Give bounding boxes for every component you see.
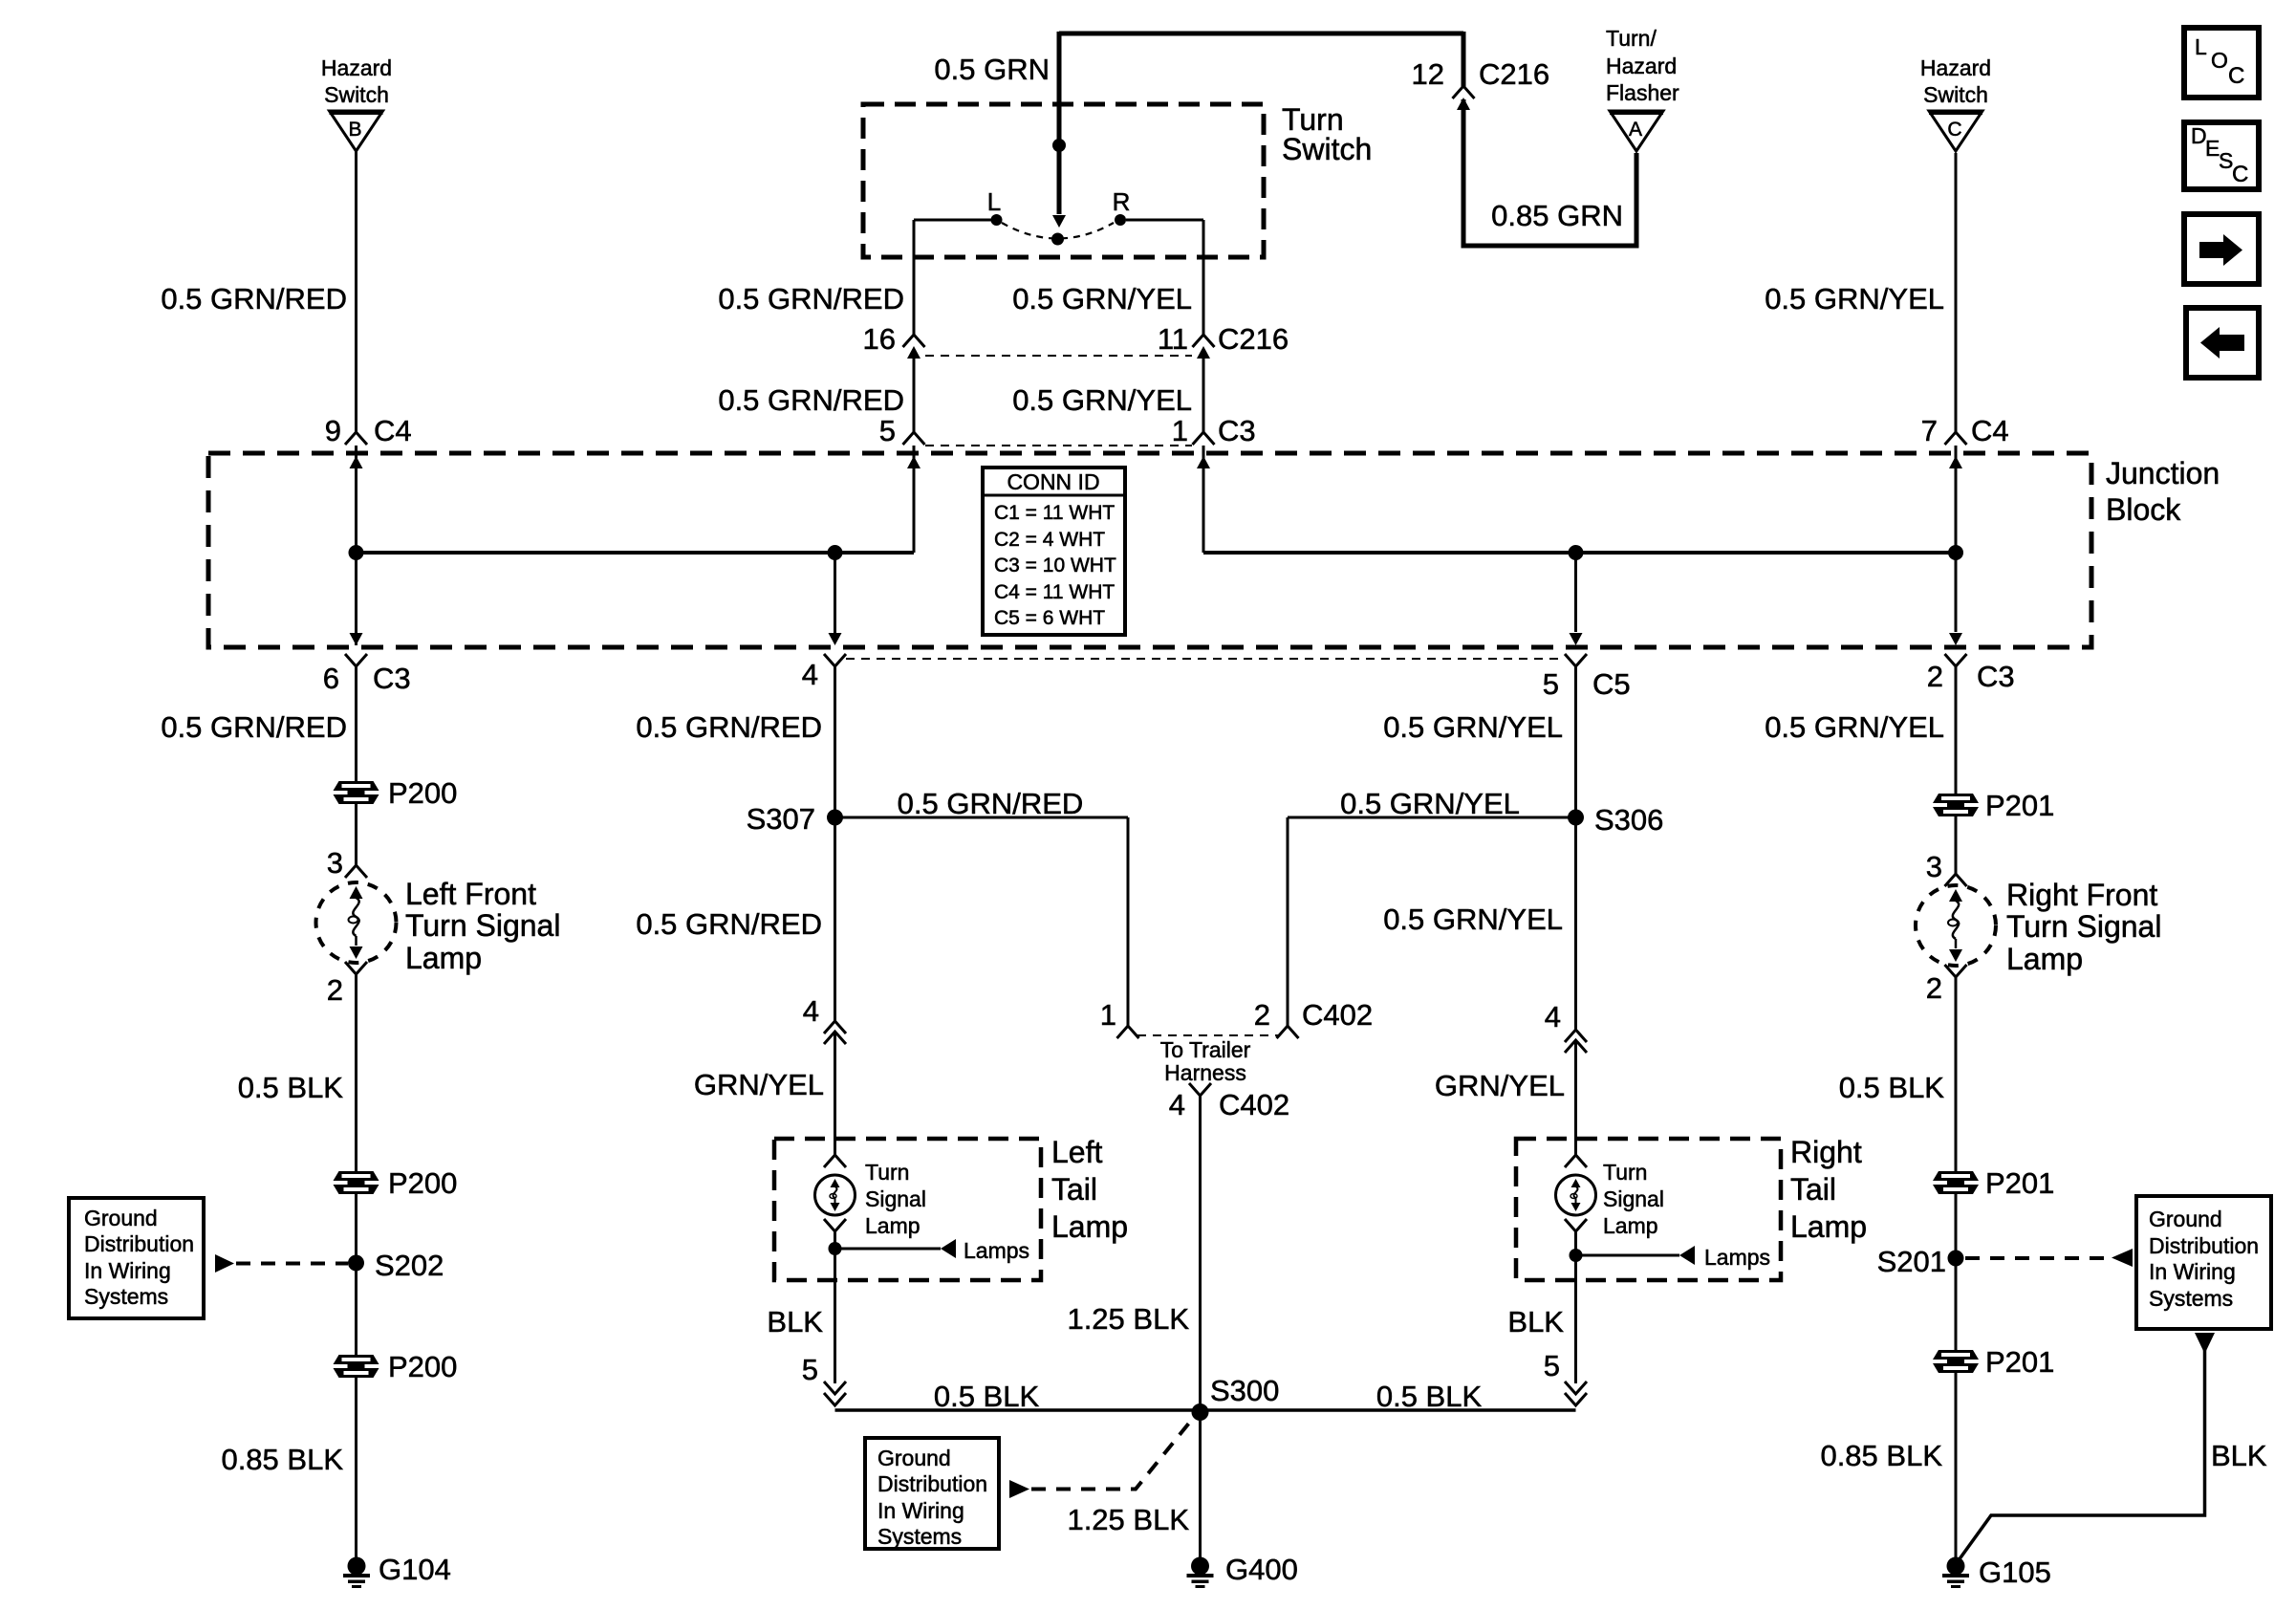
wire right tail lamp to rail xyxy=(1574,1280,1577,1383)
svg-text:0.85 BLK: 0.85 BLK xyxy=(221,1443,343,1476)
svg-text:P200: P200 xyxy=(388,776,457,810)
svg-text:C3: C3 xyxy=(373,662,411,695)
svg-text:0.5 GRN/RED: 0.5 GRN/RED xyxy=(161,282,347,315)
connector C402 pin 4 chevron xyxy=(1189,1083,1211,1096)
left tail lamp label xyxy=(1051,1135,1128,1244)
wire lamp to P200 mid xyxy=(355,974,357,1171)
wire C down to junction pin 7 xyxy=(1955,153,1958,432)
splice S306 xyxy=(1568,810,1584,826)
hazard switch C label xyxy=(1920,55,1991,107)
svg-text:Systems: Systems xyxy=(877,1524,962,1549)
grommet P200 mid xyxy=(334,1171,379,1194)
ground distribution box middle xyxy=(865,1438,999,1549)
svg-text:BLK: BLK xyxy=(1507,1305,1564,1338)
lamps arrow left xyxy=(835,1248,942,1251)
svg-text:0.5 GRN/RED: 0.5 GRN/RED xyxy=(718,282,904,315)
hazard switch B label xyxy=(321,55,392,107)
svg-text:0.5 GRN/RED: 0.5 GRN/RED xyxy=(636,907,822,941)
svg-text:Right: Right xyxy=(1790,1135,1862,1169)
dashed arrow to S202 xyxy=(215,1254,234,1273)
svg-text:0.5 GRN/RED: 0.5 GRN/RED xyxy=(718,383,904,417)
svg-text:0.85 BLK: 0.85 BLK xyxy=(1820,1439,1942,1472)
wire C5 pin5 to S306 xyxy=(1574,666,1577,817)
wire into right tail lamp xyxy=(1574,1040,1577,1155)
svg-text:Flasher: Flasher xyxy=(1606,80,1679,105)
node junction C5 branch xyxy=(1569,545,1584,560)
grommet P201 mid xyxy=(1933,1171,1979,1194)
connector C3 pin 6 xyxy=(345,654,367,666)
svg-text:G104: G104 xyxy=(379,1553,451,1586)
svg-text:C: C xyxy=(2232,162,2248,187)
svg-text:Signal: Signal xyxy=(1603,1186,1664,1211)
wire pin2 to P201 xyxy=(1955,666,1958,794)
svg-text:Left: Left xyxy=(1051,1135,1102,1169)
svg-text:Signal: Signal xyxy=(865,1186,926,1211)
dashed arrow to S300 xyxy=(1009,1480,1029,1498)
wire B down to junction pin 9 xyxy=(355,151,357,432)
wire C5 pin4 to S307 xyxy=(834,666,836,817)
svg-text:C216: C216 xyxy=(1479,57,1549,91)
svg-text:0.5 GRN/YEL: 0.5 GRN/YEL xyxy=(1383,710,1563,744)
svg-text:C4: C4 xyxy=(374,414,412,447)
svg-text:9: 9 xyxy=(325,414,341,447)
svg-text:0.5 BLK: 0.5 BLK xyxy=(1376,1380,1483,1413)
svg-text:0.5 GRN/RED: 0.5 GRN/RED xyxy=(636,710,822,744)
wire feed to flasher xyxy=(1462,32,1466,88)
lamp connector chevron pin 2 right xyxy=(1945,965,1967,977)
svg-text:P200: P200 xyxy=(388,1166,457,1200)
svg-text:C3: C3 xyxy=(1977,660,2015,693)
svg-text:0.5 GRN/YEL: 0.5 GRN/YEL xyxy=(1383,903,1563,936)
bulb chevron bottom right tail xyxy=(1565,1219,1587,1231)
ground distribution box right xyxy=(2136,1196,2271,1329)
svg-text:3: 3 xyxy=(1926,850,1942,883)
svg-text:Turn/: Turn/ xyxy=(1606,26,1657,51)
ground distribution box left xyxy=(69,1198,204,1318)
svg-text:P201: P201 xyxy=(1985,1166,2054,1200)
wire P200 to S202 xyxy=(355,1194,357,1355)
svg-text:0.5 GRN/YEL: 0.5 GRN/YEL xyxy=(1012,383,1192,417)
junction block label xyxy=(2106,456,2220,527)
svg-text:B: B xyxy=(348,119,361,141)
tail lamp exit chevrons left xyxy=(824,1382,846,1394)
svg-text:C402: C402 xyxy=(1302,998,1373,1032)
junction bus left riser to pin5 xyxy=(913,446,916,553)
svg-text:C4 = 11 WHT: C4 = 11 WHT xyxy=(994,581,1115,603)
junction riser node at right column xyxy=(1948,545,1963,560)
svg-text:0.5 GRN/YEL: 0.5 GRN/YEL xyxy=(1765,282,1944,315)
wire left tail lamp to rail xyxy=(834,1280,836,1383)
svg-text:Left Front: Left Front xyxy=(405,877,536,911)
svg-text:Tail: Tail xyxy=(1051,1172,1097,1207)
svg-text:To Trailer: To Trailer xyxy=(1160,1037,1251,1062)
svg-text:BLK: BLK xyxy=(2211,1439,2267,1472)
turn/hazard flasher triangle A xyxy=(1610,111,1663,151)
svg-text:Tail: Tail xyxy=(1790,1172,1836,1207)
connector C216 pin 16 xyxy=(903,335,925,347)
svg-text:S300: S300 xyxy=(1210,1374,1279,1407)
dashed arrow from S201 xyxy=(1965,1256,2110,1260)
svg-text:12: 12 xyxy=(1412,57,1444,91)
wire lamp to P201 mid xyxy=(1955,977,1958,1171)
lamp connector chevron pin 3 xyxy=(345,865,367,878)
svg-text:Lamp: Lamp xyxy=(2006,942,2083,976)
node junction bus S branch xyxy=(828,545,843,560)
connector C3 pin 2 xyxy=(1945,654,1967,666)
svg-text:5: 5 xyxy=(802,1353,818,1386)
tail lamp connector chevrons right xyxy=(1565,1030,1587,1042)
svg-text:3: 3 xyxy=(327,846,343,880)
svg-text:CONN ID: CONN ID xyxy=(1007,469,1099,494)
svg-text:Turn Signal: Turn Signal xyxy=(2006,909,2161,944)
svg-text:5: 5 xyxy=(1543,667,1559,701)
C216 connector dashed line xyxy=(925,355,1192,357)
connector C3 pin 1 xyxy=(1193,432,1215,445)
svg-text:O: O xyxy=(2211,48,2228,73)
svg-text:Junction: Junction xyxy=(2106,456,2220,490)
grommet P200 bottom xyxy=(334,1355,379,1378)
svg-text:C2 = 4 WHT: C2 = 4 WHT xyxy=(994,529,1105,551)
svg-text:C3: C3 xyxy=(1218,414,1256,447)
svg-text:Ground: Ground xyxy=(2149,1207,2222,1231)
junction branch down to C5 pin4 xyxy=(834,553,836,633)
svg-text:4: 4 xyxy=(803,994,819,1028)
C3 connector dashed line xyxy=(925,445,1192,446)
turn signal lamp small label right xyxy=(1603,1160,1664,1238)
svg-text:C: C xyxy=(2228,63,2244,89)
S307 branch wire to trailer pin 1 xyxy=(835,816,1129,819)
svg-text:1: 1 xyxy=(1100,998,1116,1032)
lamp connector chevron pin 2 xyxy=(345,962,367,974)
svg-text:GRN/YEL: GRN/YEL xyxy=(694,1068,824,1101)
svg-text:Hazard: Hazard xyxy=(321,55,392,80)
to trailer harness label xyxy=(1160,1037,1251,1085)
C5 connector dashed line xyxy=(846,658,1565,660)
svg-text:6: 6 xyxy=(323,662,339,695)
wire into left tail lamp xyxy=(834,1032,836,1155)
node lamps branch left xyxy=(829,1242,842,1255)
BLK wire from ground box xyxy=(1959,1350,2205,1560)
node on feed wire xyxy=(1052,139,1066,152)
svg-text:0.5 GRN/RED: 0.5 GRN/RED xyxy=(898,787,1084,820)
svg-text:In Wiring: In Wiring xyxy=(877,1498,964,1523)
wire S306 down xyxy=(1574,817,1577,1030)
svg-text:Systems: Systems xyxy=(84,1284,168,1309)
svg-text:C402: C402 xyxy=(1219,1088,1289,1121)
right arrow box xyxy=(2184,214,2259,284)
svg-text:G400: G400 xyxy=(1225,1553,1298,1586)
svg-text:In Wiring: In Wiring xyxy=(84,1258,171,1283)
svg-text:2: 2 xyxy=(1254,998,1270,1032)
svg-text:Lamp: Lamp xyxy=(1603,1213,1658,1238)
svg-text:5: 5 xyxy=(1544,1349,1560,1382)
svg-text:Systems: Systems xyxy=(2149,1286,2233,1311)
svg-text:C216: C216 xyxy=(1218,322,1289,356)
left front turn signal lamp label xyxy=(405,877,560,975)
svg-text:0.5 GRN/YEL: 0.5 GRN/YEL xyxy=(1012,282,1192,315)
wire bulb to lamps node xyxy=(834,1231,836,1280)
svg-text:A: A xyxy=(1629,119,1642,141)
turn/hazard flasher label xyxy=(1606,26,1679,105)
ground G105 xyxy=(1942,1557,1969,1589)
right tail lamp dashed box xyxy=(1516,1139,1781,1280)
svg-text:S202: S202 xyxy=(375,1249,444,1282)
svg-text:Distribution: Distribution xyxy=(84,1231,194,1256)
turn switch feed arrow xyxy=(1052,215,1066,228)
svg-text:P201: P201 xyxy=(1985,789,2054,822)
svg-text:1.25 BLK: 1.25 BLK xyxy=(1067,1302,1189,1336)
svg-text:C3 = 10 WHT: C3 = 10 WHT xyxy=(994,555,1116,577)
junction wire pin9 to bus xyxy=(355,446,357,645)
svg-text:L: L xyxy=(987,187,1001,216)
svg-text:S201: S201 xyxy=(1877,1245,1946,1278)
svg-text:4: 4 xyxy=(1169,1088,1185,1121)
svg-text:Lamps: Lamps xyxy=(1704,1245,1770,1270)
connector C4 pin 7 xyxy=(1945,432,1967,445)
wire P200 to lamp pin 3 xyxy=(355,804,357,865)
wire pin16 to pin5 xyxy=(913,358,916,432)
turn switch common contact xyxy=(1051,233,1064,246)
svg-text:Hazard: Hazard xyxy=(1606,54,1677,78)
svg-text:Lamp: Lamp xyxy=(1790,1209,1867,1244)
svg-text:4: 4 xyxy=(1545,1000,1561,1033)
svg-text:Ground: Ground xyxy=(877,1446,951,1470)
right tail lamp label xyxy=(1790,1135,1867,1244)
svg-text:Switch: Switch xyxy=(1923,82,1988,107)
lamps arrow right xyxy=(1576,1254,1680,1257)
ground G104 xyxy=(343,1557,370,1589)
svg-text:S306: S306 xyxy=(1594,803,1663,837)
svg-text:0.5 GRN/YEL: 0.5 GRN/YEL xyxy=(1340,787,1520,820)
grommet P201 top xyxy=(1933,794,1979,816)
ground G400 xyxy=(1187,1557,1214,1589)
svg-text:C1 = 11 WHT: C1 = 11 WHT xyxy=(994,502,1115,524)
svg-text:Turn Signal: Turn Signal xyxy=(405,908,560,943)
svg-text:Hazard: Hazard xyxy=(1920,55,1991,80)
svg-text:P200: P200 xyxy=(388,1350,457,1383)
node junction bus pin9 xyxy=(349,545,364,560)
DESC box xyxy=(2184,122,2259,189)
ground rail 0.5 BLK xyxy=(835,1408,1576,1412)
svg-text:GRN/YEL: GRN/YEL xyxy=(1435,1069,1565,1102)
svg-text:Turn: Turn xyxy=(1603,1160,1647,1185)
svg-text:Right Front: Right Front xyxy=(2006,878,2157,912)
hazard switch B triangle xyxy=(330,111,383,151)
svg-text:Lamp: Lamp xyxy=(405,941,482,975)
bulb chevron top right tail xyxy=(1565,1155,1587,1167)
svg-text:L: L xyxy=(2195,34,2207,59)
svg-text:2: 2 xyxy=(1926,971,1942,1005)
svg-text:C: C xyxy=(1947,119,1961,141)
svg-text:0.5 GRN/YEL: 0.5 GRN/YEL xyxy=(1765,710,1944,744)
grommet P200 top xyxy=(334,781,379,804)
turn switch dashed box xyxy=(863,104,1264,257)
wire P201 to S201 xyxy=(1955,1194,1958,1350)
svg-text:Lamps: Lamps xyxy=(964,1238,1029,1263)
left arrow box xyxy=(2186,308,2259,378)
junction arrow pin9 bottom xyxy=(350,633,363,645)
svg-text:11: 11 xyxy=(1158,322,1188,356)
svg-text:C5: C5 xyxy=(1592,667,1631,701)
svg-text:G105: G105 xyxy=(1979,1556,2051,1589)
connector C402 pin 2 chevron xyxy=(1277,1026,1299,1038)
grommet P201 bottom xyxy=(1933,1350,1979,1373)
turn switch label xyxy=(1282,102,1372,166)
right front turn signal lamp bulb xyxy=(1916,885,1996,966)
connector C5 pin 4 xyxy=(824,654,846,666)
svg-text:1.25 BLK: 1.25 BLK xyxy=(1067,1503,1189,1536)
svg-text:4: 4 xyxy=(802,658,818,691)
wire from L contact xyxy=(914,219,991,222)
turn signal lamp small label left xyxy=(865,1160,926,1238)
LOC box xyxy=(2184,28,2259,98)
junction wire pin7 down xyxy=(1955,446,1958,632)
bulb chevron top left tail xyxy=(824,1155,846,1167)
svg-text:0.85 GRN: 0.85 GRN xyxy=(1491,199,1623,232)
svg-text:Distribution: Distribution xyxy=(877,1471,987,1496)
svg-text:16: 16 xyxy=(863,322,896,356)
bulb chevron bottom left tail xyxy=(824,1219,846,1231)
C402 connector dashed line xyxy=(1137,1034,1278,1036)
svg-text:Switch: Switch xyxy=(1282,132,1372,166)
connector C216 pin 12 xyxy=(1453,86,1475,98)
junction branch down to C5 pin5 xyxy=(1574,553,1577,632)
svg-text:Lamp: Lamp xyxy=(1051,1209,1128,1244)
wire P201 to G105 xyxy=(1955,1373,1958,1560)
connector C5 pin 5 xyxy=(1565,654,1587,666)
lamp connector chevron pin 3 right xyxy=(1945,874,1967,886)
wire 0.5 GRN top feed xyxy=(1059,32,1463,36)
connector C402 pin 1 chevron xyxy=(1117,1026,1139,1038)
svg-text:5: 5 xyxy=(879,414,896,447)
left front turn signal lamp bulb xyxy=(316,882,397,963)
wire pin6 to P200 xyxy=(355,666,357,781)
svg-text:Lamp: Lamp xyxy=(865,1213,921,1238)
splice S201 xyxy=(1948,1251,1964,1267)
right front turn signal lamp label xyxy=(2006,878,2161,976)
connector C3 pin 5 xyxy=(903,432,925,445)
turn switch wiper dashed arc xyxy=(1002,223,1114,239)
wire S307 down xyxy=(834,817,836,1021)
junction wire pin1 elbow xyxy=(1202,446,1205,553)
node lamps branch right xyxy=(1570,1249,1583,1262)
svg-text:BLK: BLK xyxy=(767,1305,823,1338)
svg-text:0.5 BLK: 0.5 BLK xyxy=(1839,1071,1945,1104)
connector C4 pin 9 xyxy=(345,432,367,445)
junction block dashed box xyxy=(208,453,2091,647)
trailer harness wire down xyxy=(1199,1096,1202,1560)
splice S300 xyxy=(1192,1403,1209,1421)
svg-text:C4: C4 xyxy=(1971,414,2009,447)
wire P200 to G104 xyxy=(355,1378,357,1560)
svg-text:0.5 GRN: 0.5 GRN xyxy=(934,53,1050,86)
svg-text:Switch: Switch xyxy=(324,82,389,107)
junction bus left segment xyxy=(357,551,915,555)
svg-text:2: 2 xyxy=(1927,660,1943,693)
hazard switch C triangle xyxy=(1929,111,1982,151)
svg-text:2: 2 xyxy=(327,973,343,1007)
wire P201 to lamp pin 3 xyxy=(1955,816,1958,874)
wire from R contact xyxy=(1126,219,1203,222)
wire bulb to lamps node right xyxy=(1574,1231,1577,1280)
left tail turn signal bulb xyxy=(815,1175,856,1215)
svg-text:0.5 BLK: 0.5 BLK xyxy=(934,1380,1040,1413)
svg-text:R: R xyxy=(1113,187,1131,216)
right tail turn signal bulb xyxy=(1556,1175,1596,1215)
svg-text:P201: P201 xyxy=(1985,1345,2054,1379)
wire pin11 to pin1 xyxy=(1202,358,1205,432)
svg-text:0.5 GRN/RED: 0.5 GRN/RED xyxy=(161,710,347,744)
svg-text:1: 1 xyxy=(1172,414,1188,447)
svg-text:Harness: Harness xyxy=(1164,1060,1246,1085)
splice S307 xyxy=(827,810,843,826)
S306 branch wire to trailer pin 2 xyxy=(1288,816,1576,819)
arrow below ground box right xyxy=(2195,1333,2215,1354)
splice S202 xyxy=(348,1255,364,1272)
svg-text:C5 = 6 WHT: C5 = 6 WHT xyxy=(994,607,1105,629)
svg-text:Turn: Turn xyxy=(865,1160,909,1185)
tail lamp connector chevrons left xyxy=(824,1021,846,1033)
svg-text:Distribution: Distribution xyxy=(2149,1233,2259,1258)
svg-text:Ground: Ground xyxy=(84,1206,158,1230)
svg-text:7: 7 xyxy=(1921,414,1938,447)
CONN ID table xyxy=(983,468,1125,635)
left tail lamp dashed box xyxy=(774,1139,1041,1280)
tail lamp exit chevrons right xyxy=(1565,1382,1587,1394)
svg-text:S307: S307 xyxy=(747,802,815,836)
connector C216 pin 11 xyxy=(1193,335,1215,347)
svg-text:0.5 BLK: 0.5 BLK xyxy=(238,1071,344,1104)
svg-text:In Wiring: In Wiring xyxy=(2149,1259,2236,1284)
svg-text:Block: Block xyxy=(2106,492,2181,527)
